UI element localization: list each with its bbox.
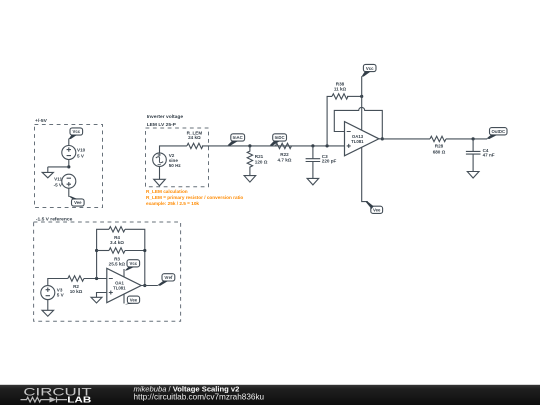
wire R2 to opamp xyxy=(84,278,107,280)
ground under C4 xyxy=(467,172,479,179)
svg-text:Vee: Vee xyxy=(130,297,138,302)
svg-text:5 V: 5 V xyxy=(77,153,85,158)
svg-text:Vcc: Vcc xyxy=(366,66,374,71)
svg-text:R_LEM = primary resistor / con: R_LEM = primary resistor / conversion ra… xyxy=(146,195,243,200)
svg-text:680 Ω: 680 Ω xyxy=(433,149,446,154)
Vee flag (bottom of V11) xyxy=(69,196,85,206)
junction dot R38 tap xyxy=(326,144,329,147)
svg-text:InAC: InAC xyxy=(233,135,243,140)
wire R28 to OutDC xyxy=(446,138,487,140)
svg-text:10 kΩ: 10 kΩ xyxy=(70,289,83,294)
svg-text:Inverter voltage: Inverter voltage xyxy=(147,114,184,120)
footer bar xyxy=(0,385,540,405)
svg-text:R28: R28 xyxy=(435,144,444,149)
junction dot R3 right xyxy=(143,249,146,252)
wire output to R28 xyxy=(379,138,430,140)
resistor R38 xyxy=(332,94,348,99)
svg-text:+/-5V: +/-5V xyxy=(35,118,48,124)
svg-text:120 Ω: 120 Ω xyxy=(255,160,268,165)
svg-text:LEM LV 25-P: LEM LV 25-P xyxy=(147,122,177,128)
svg-text:3.4 kΩ: 3.4 kΩ xyxy=(110,240,124,245)
wire R3 left leg xyxy=(97,250,109,252)
junction dot inverting input xyxy=(95,277,98,280)
wire V3 top xyxy=(48,279,68,286)
InAC flag xyxy=(228,134,245,146)
op-amp OA13 xyxy=(345,122,379,156)
voltage source V2 sine xyxy=(153,153,167,167)
Vcc flag (opamp OA1) xyxy=(125,260,140,271)
svg-text:220 pF: 220 pF xyxy=(322,158,337,163)
resistor R22 xyxy=(276,143,292,148)
dashed box reference xyxy=(34,222,181,321)
feedback wire with hop xyxy=(334,107,382,138)
resistor R2 xyxy=(68,276,84,281)
svg-text:-5 V: -5 V xyxy=(54,182,63,187)
svg-text:TL081: TL081 xyxy=(351,139,364,144)
svg-text:OutDC: OutDC xyxy=(491,129,505,134)
ground at OA1 + input xyxy=(91,297,102,303)
wire V2 top xyxy=(160,146,187,153)
Vee flag (opamp OA1) xyxy=(125,296,140,305)
svg-text:Vee: Vee xyxy=(373,208,381,213)
svg-text:R22: R22 xyxy=(280,152,289,157)
dashed box LEM xyxy=(146,128,209,187)
wire OA1 output xyxy=(141,285,158,287)
svg-text:11 kΩ: 11 kΩ xyxy=(334,86,347,91)
svg-text:Vee: Vee xyxy=(74,200,82,205)
Vref flag xyxy=(157,274,174,286)
InDC flag xyxy=(270,134,287,146)
resistor R21 (vertical) xyxy=(247,146,252,176)
voltage source V11 xyxy=(62,174,76,188)
wire R38 left leg xyxy=(327,96,332,145)
svg-text:example: 25k / 2.5 = 10k: example: 25k / 2.5 = 10k xyxy=(146,201,199,206)
wire feedback left vertical xyxy=(97,229,109,278)
Vcc flag (opamp OA13) xyxy=(361,64,376,76)
resistor R3 xyxy=(109,248,125,253)
main wire to opamp xyxy=(202,145,344,147)
svg-text:Vcc: Vcc xyxy=(72,129,80,134)
svg-text:V11: V11 xyxy=(54,176,62,181)
wire R38 right xyxy=(347,95,362,97)
dashed box +/-5V xyxy=(35,125,103,208)
svg-text:Vcc: Vcc xyxy=(129,261,137,266)
op-amp OA1 xyxy=(107,268,141,302)
junction dot R38/Vcc xyxy=(360,95,363,98)
wire Vcc to opamp power pin xyxy=(361,76,363,130)
wire V11 to Vee flag xyxy=(68,188,70,197)
resistor R_LEM xyxy=(187,143,203,148)
OutDC flag xyxy=(487,128,507,139)
junction dot output OA13 xyxy=(381,137,384,140)
ground (top-left) xyxy=(42,167,53,178)
resistor R28 xyxy=(430,136,446,141)
junction dot xyxy=(67,165,70,168)
wire V3 bottom xyxy=(47,300,49,311)
Vee flag (opamp OA13) xyxy=(366,201,383,214)
svg-text:50 Hz: 50 Hz xyxy=(169,163,182,168)
junction dot OA1 output xyxy=(143,284,146,287)
junction dot R3 left xyxy=(95,249,98,252)
wire Vee pin OA1 xyxy=(123,294,125,304)
svg-text:24 kΩ: 24 kΩ xyxy=(188,135,201,140)
ground under R21 xyxy=(244,176,256,183)
svg-text:R21: R21 xyxy=(255,154,264,159)
wire R4 right leg xyxy=(125,229,145,285)
svg-text:LAB: LAB xyxy=(67,396,91,405)
wire V10 to junction xyxy=(68,160,70,167)
wire V2 bottom to ground xyxy=(159,167,161,180)
svg-text:5 V: 5 V xyxy=(57,292,65,297)
svg-text:TL081: TL081 xyxy=(113,286,126,291)
wire R3 right leg xyxy=(125,250,145,252)
wire noninverting input to ground xyxy=(97,293,107,298)
wire Vcc to V10 xyxy=(68,139,70,146)
wire Vee pin OA13 xyxy=(362,147,368,201)
wire Vcc pin OA1 xyxy=(123,269,125,277)
wire junction to ground xyxy=(48,166,69,168)
svg-text:http://circuitlab.com/cv7mzrah: http://circuitlab.com/cv7mzrah836ku xyxy=(134,393,265,402)
svg-text:V10: V10 xyxy=(77,148,86,153)
svg-text:Vref: Vref xyxy=(164,275,173,280)
voltage source V10 xyxy=(62,146,76,160)
junction dot R21 xyxy=(248,144,251,147)
svg-text:25.5 kΩ: 25.5 kΩ xyxy=(109,262,126,267)
svg-text:4.7 kΩ: 4.7 kΩ xyxy=(278,157,292,162)
capacitor C4 xyxy=(466,139,481,172)
svg-text:47 nF: 47 nF xyxy=(483,153,495,158)
junction dot C3 xyxy=(311,144,314,147)
ground under V3 xyxy=(42,310,54,316)
junction dot C4 xyxy=(472,137,475,140)
ground under C3 xyxy=(307,178,319,185)
svg-text:InDC: InDC xyxy=(275,135,285,140)
voltage source V3 xyxy=(41,286,55,300)
Vcc flag (top of V10) xyxy=(69,128,83,139)
logo glyph wire-resistor-diode xyxy=(21,397,68,403)
resistor R4 xyxy=(109,227,125,232)
capacitor C3 xyxy=(306,146,321,179)
svg-text:R_LEM calculation: R_LEM calculation xyxy=(146,189,188,194)
ground under V2 xyxy=(154,179,166,186)
